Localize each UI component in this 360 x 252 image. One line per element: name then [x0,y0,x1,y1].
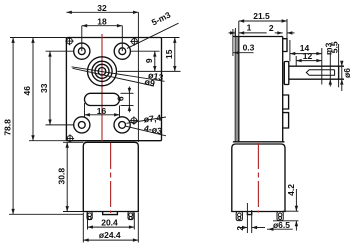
dimension m3 line [329,52,331,87]
svg-text:9: 9 [144,58,154,63]
shaft circle ø9 [92,61,112,81]
red vertical centerline through output shaft [101,34,103,141]
dimension 5.5 line [338,44,340,87]
dimension 20.4 terminal plate width [87,213,89,230]
red centerline of motor side view [257,143,259,213]
output shaft side view [289,65,344,67]
dimension 9 hole to shaft center [131,50,160,52]
svg-text:1: 1 [247,23,252,33]
motor terminal right [128,212,133,220]
dimension ø24.4 motor diameter [82,213,84,243]
motor bottom center tab [103,212,118,215]
dimension 78.8 overall height [10,37,66,39]
svg-text:78.8: 78.8 [2,119,12,136]
dimension 46 plate height [29,140,66,142]
svg-text:46: 46 [22,86,32,96]
leader ø13 [72,67,165,82]
leader ø9 [73,68,155,86]
dimension 2 tab depth [275,32,283,34]
dimension 16 slot width [84,103,86,118]
svg-text:32: 32 [97,3,107,13]
svg-text:18: 18 [97,17,107,27]
svg-text:33: 33 [39,83,49,93]
svg-text:12: 12 [303,51,313,61]
svg-text:20.4: 20.4 [101,217,118,227]
svg-text:21.5: 21.5 [253,11,270,21]
dimension 15 plate top to shaft center [162,37,180,39]
svg-text:5.5: 5.5 [330,41,340,53]
motor body side view [232,144,285,212]
side tab C [283,95,289,109]
mounting slot 16x6 [85,93,120,105]
svg-text:2: 2 [235,226,245,231]
svg-text:2: 2 [269,23,274,33]
side tab A top right [283,39,287,52]
side tab D [283,113,289,128]
dimension 21.5 overall width side [238,21,240,37]
svg-text:16: 16 [97,106,107,116]
side motor bottom center tab [247,212,251,215]
svg-text:ø6: ø6 [342,68,352,78]
dimension 33 hole spacing vertical [46,50,74,52]
dimension 32 top [137,12,139,142]
motor terminal left [87,212,92,220]
corner target mark top-right [130,37,138,45]
side terminal left [236,212,242,221]
output shaft boss circle ø13 [88,57,117,86]
red centerline of motor front view [110,143,112,213]
screw hole top-right ø7.4 [114,43,130,59]
dimension 30.8 motor height [63,141,83,143]
leader 0.3 cover thickness [233,52,254,54]
leader ø7,4 to bottom-right hole [127,117,167,123]
dimension 4.2 terminal height [283,210,299,212]
dimension 6 slot height [121,92,134,94]
leader 5-m3 to top right hole [127,23,179,48]
svg-text:15: 15 [164,49,174,59]
leader 4-ø3 to bottom-right hole [126,126,166,136]
dimension 14 shaft length [289,40,291,62]
screw hole top-left ø7.4 [74,43,90,59]
side view cover plate 0.3 [232,29,234,56]
motor body front view [83,142,138,211]
svg-text:ø6.5: ø6.5 [273,220,290,230]
dimension 2 center tab side [246,203,248,233]
shaft center hole [98,68,106,76]
shaft D-flat outline [306,70,334,76]
screw hole bottom-right ø7.4 [114,117,130,133]
screw hole bottom-left ø7.4 [74,117,90,133]
side view gearbox body [233,36,283,38]
svg-text:ø24.4: ø24.4 [99,230,121,240]
dimension 1 cover [234,28,236,37]
dimension ø6 shaft diameter [341,61,343,91]
side terminal right [277,212,283,221]
shaft circle ø6 [95,64,109,78]
dimension 18 top holes [81,26,83,52]
target mark at bottom-right hole [130,116,138,124]
corner target mark bottom-left [66,134,74,142]
output shaft boss side [284,62,289,85]
dimension 12 flat length [295,56,297,66]
svg-text:30.8: 30.8 [56,168,66,185]
corner target mark top-left [65,37,73,45]
svg-text:0.3: 0.3 [243,43,255,53]
svg-text:4.2: 4.2 [286,184,296,196]
gearbox front plate outline [66,38,161,141]
svg-text:6: 6 [116,96,126,101]
leader ø6.5 [267,228,293,230]
